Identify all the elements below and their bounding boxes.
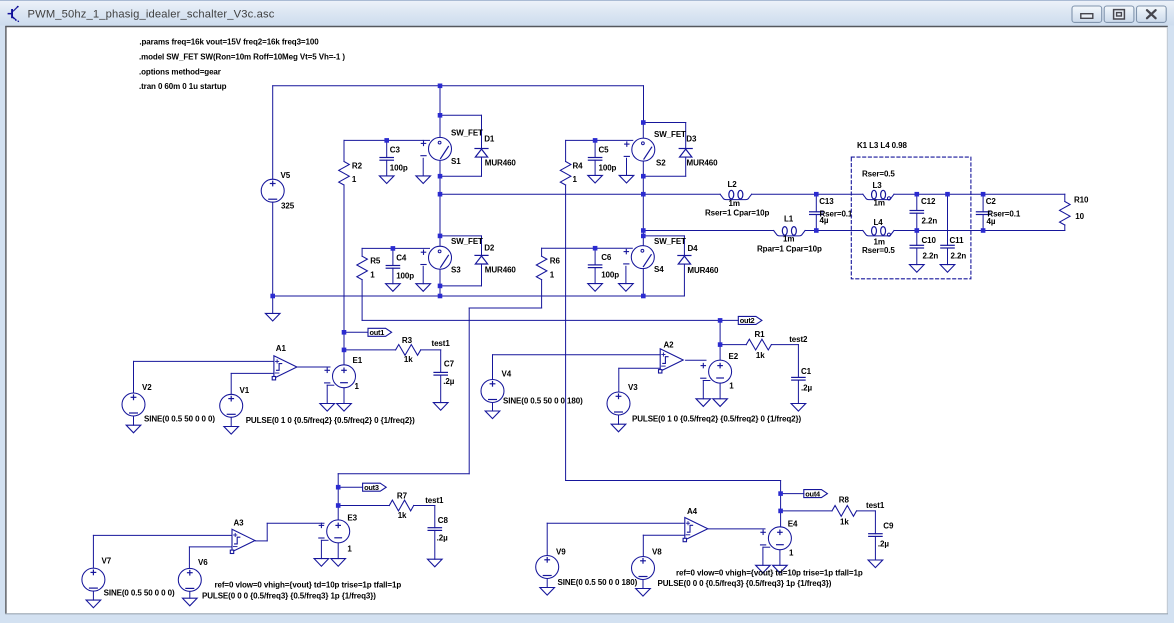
svg-text:MUR460: MUR460 [687, 159, 719, 168]
svg-text:MUR460: MUR460 [485, 266, 517, 275]
svg-text:A4: A4 [687, 507, 698, 516]
svg-text:10: 10 [1075, 212, 1084, 221]
svg-text:Rser=1 Cpar=10p: Rser=1 Cpar=10p [705, 209, 770, 218]
svg-text:C6: C6 [601, 253, 612, 262]
svg-text:325: 325 [281, 202, 295, 211]
svg-text:L3: L3 [873, 181, 883, 190]
svg-text:L4: L4 [874, 218, 884, 227]
svg-text:E2: E2 [729, 352, 739, 361]
svg-text:C2: C2 [986, 197, 997, 206]
svg-text:S4: S4 [654, 265, 664, 274]
svg-text:.tran 0 60m 0 1u startup: .tran 0 60m 0 1u startup [139, 82, 227, 91]
svg-text:1m: 1m [783, 235, 794, 244]
svg-text:2.2n: 2.2n [922, 217, 938, 226]
svg-text:SW_FET: SW_FET [654, 237, 686, 246]
svg-text:PULSE(0 0 0 {0.5/freq3} {0.5/f: PULSE(0 0 0 {0.5/freq3} {0.5/freq3} 1p {… [202, 592, 376, 601]
svg-text:V3: V3 [628, 383, 638, 392]
svg-text:A3: A3 [234, 519, 245, 528]
svg-text:PULSE(0 1 0 {0.5/freq2} {0.5/f: PULSE(0 1 0 {0.5/freq2} {0.5/freq2} 0 {1… [246, 416, 415, 425]
svg-text:V1: V1 [240, 386, 250, 395]
svg-text:1: 1 [347, 545, 352, 554]
svg-text:C11: C11 [950, 236, 965, 245]
svg-text:.2µ: .2µ [878, 540, 889, 549]
svg-text:SW_FET: SW_FET [451, 129, 483, 138]
svg-text:100p: 100p [601, 271, 619, 280]
svg-text:C4: C4 [396, 254, 407, 263]
svg-text:MUR460: MUR460 [687, 266, 719, 275]
svg-text:1: 1 [550, 271, 555, 280]
svg-text:R2: R2 [352, 161, 363, 170]
svg-text:4µ: 4µ [820, 216, 829, 225]
svg-text:SINE(0 0.5 50 0 0 0): SINE(0 0.5 50 0 0 0) [104, 588, 175, 597]
svg-text:.2µ: .2µ [437, 534, 448, 543]
svg-text:R10: R10 [1074, 195, 1089, 204]
svg-text:D4: D4 [688, 244, 699, 253]
svg-text:2.2n: 2.2n [951, 252, 967, 261]
svg-text:C13: C13 [819, 197, 834, 206]
svg-text:test2: test2 [789, 335, 808, 344]
svg-text:D1: D1 [484, 134, 495, 143]
svg-text:V5: V5 [281, 171, 291, 180]
svg-text:D3: D3 [686, 135, 697, 144]
svg-text:out3: out3 [364, 483, 379, 492]
svg-text:1k: 1k [756, 351, 765, 360]
svg-text:1: 1 [355, 382, 360, 391]
svg-text:R7: R7 [397, 492, 408, 501]
svg-text:C12: C12 [921, 197, 936, 206]
svg-text:C7: C7 [444, 359, 455, 368]
svg-text:Rser=0.5: Rser=0.5 [862, 246, 895, 255]
svg-text:V9: V9 [556, 548, 566, 557]
svg-text:1m: 1m [729, 199, 740, 208]
svg-text:100p: 100p [390, 163, 408, 172]
svg-text:PWM_50hz_1_phasig_idealer_scha: PWM_50hz_1_phasig_idealer_schalter_V3c.a… [28, 9, 275, 21]
svg-text:.options method=gear: .options method=gear [139, 67, 221, 76]
svg-text:.params freq=16k vout=15V freq: .params freq=16k vout=15V freq2=16k freq… [139, 38, 319, 47]
svg-text:A2: A2 [664, 341, 675, 350]
svg-text:1: 1 [370, 271, 375, 280]
svg-text:L1: L1 [784, 215, 794, 224]
svg-text:1k: 1k [840, 518, 849, 527]
svg-text:S1: S1 [451, 157, 461, 166]
svg-text:ref=0 vlow=0 vhigh={vout} td=1: ref=0 vlow=0 vhigh={vout} td=10p trise=1… [215, 581, 402, 590]
svg-text:ref=0 vlow=0 vhigh={vout} td=1: ref=0 vlow=0 vhigh={vout} td=10p trise=1… [676, 569, 863, 578]
svg-text:PULSE(0 0 0 {0.5/freq3} {0.5/f: PULSE(0 0 0 {0.5/freq3} {0.5/freq3} 1p {… [658, 579, 832, 588]
svg-text:R6: R6 [550, 257, 561, 266]
svg-text:.2µ: .2µ [443, 377, 454, 386]
svg-text:K1 L3 L4 0.98: K1 L3 L4 0.98 [857, 141, 907, 150]
svg-text:E3: E3 [347, 513, 357, 522]
svg-text:S2: S2 [656, 159, 666, 168]
svg-text:out4: out4 [805, 489, 821, 498]
svg-text:SINE(0 0.5 50 0 0 180): SINE(0 0.5 50 0 0 180) [503, 397, 583, 406]
svg-text:E4: E4 [788, 519, 798, 528]
svg-text:C8: C8 [438, 516, 449, 525]
svg-text:V6: V6 [198, 558, 208, 567]
svg-text:V8: V8 [652, 548, 662, 557]
svg-text:C1: C1 [801, 367, 812, 376]
svg-text:.model SW_FET SW(Ron=10m Roff=: .model SW_FET SW(Ron=10m Roff=10Meg Vt=5… [139, 53, 345, 62]
svg-text:SW_FET: SW_FET [451, 237, 483, 246]
svg-text:R8: R8 [839, 496, 850, 505]
svg-text:2.2n: 2.2n [923, 252, 939, 261]
svg-text:out2: out2 [740, 316, 755, 325]
svg-text:test1: test1 [432, 339, 451, 348]
svg-text:Rpar=1 Cpar=10p: Rpar=1 Cpar=10p [757, 245, 822, 254]
svg-text:S3: S3 [451, 266, 461, 275]
svg-text:test1: test1 [425, 496, 444, 505]
svg-text:MUR460: MUR460 [485, 159, 517, 168]
svg-text:100p: 100p [599, 163, 617, 172]
svg-text:100p: 100p [396, 271, 414, 280]
svg-text:1: 1 [789, 549, 794, 558]
svg-text:SINE(0 0.5 50 0 0 180): SINE(0 0.5 50 0 0 180) [558, 578, 638, 587]
svg-text:D2: D2 [484, 244, 495, 253]
svg-text:4µ: 4µ [987, 217, 996, 226]
svg-text:1k: 1k [404, 355, 413, 364]
svg-text:1m: 1m [874, 199, 885, 208]
svg-text:SINE(0 0.5 50 0 0 0): SINE(0 0.5 50 0 0 0) [144, 415, 215, 424]
svg-text:PULSE(0 1 0 {0.5/freq2} {0.5/f: PULSE(0 1 0 {0.5/freq2} {0.5/freq2} 0 {1… [632, 415, 801, 424]
svg-text:1: 1 [729, 382, 734, 391]
svg-text:C9: C9 [883, 522, 894, 531]
svg-text:1: 1 [573, 175, 578, 184]
svg-text:V4: V4 [502, 370, 512, 379]
svg-text:V2: V2 [142, 383, 152, 392]
svg-text:out1: out1 [370, 328, 385, 337]
svg-text:1k: 1k [398, 511, 407, 520]
svg-text:Rser=0.5: Rser=0.5 [862, 170, 895, 179]
svg-text:L2: L2 [728, 180, 738, 189]
svg-text:C10: C10 [922, 236, 937, 245]
svg-text:.2µ: .2µ [801, 383, 812, 392]
svg-text:E1: E1 [353, 356, 363, 365]
svg-text:test1: test1 [866, 501, 885, 510]
svg-text:1: 1 [352, 175, 357, 184]
svg-text:A1: A1 [276, 344, 287, 353]
svg-text:R3: R3 [402, 336, 413, 345]
svg-text:V7: V7 [102, 557, 112, 566]
svg-text:C5: C5 [599, 146, 610, 155]
svg-text:C3: C3 [390, 146, 401, 155]
svg-text:R5: R5 [370, 257, 381, 266]
svg-text:SW_FET: SW_FET [654, 130, 686, 139]
svg-text:R4: R4 [573, 161, 584, 170]
svg-text:R1: R1 [755, 330, 766, 339]
